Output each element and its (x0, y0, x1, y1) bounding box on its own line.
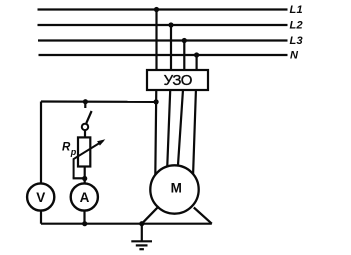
svg-text:N: N (290, 50, 299, 62)
node junction dot at ground tap (139, 221, 144, 226)
resistor rheostat Rp body (78, 137, 90, 166)
node junction dot above ammeter (82, 176, 87, 181)
svg-text:УЗО: УЗО (164, 72, 192, 89)
motor stand right leg (194, 208, 212, 224)
wire from rheostat bottom to ammeter (84, 167, 86, 184)
ammeter A (71, 183, 98, 210)
wire below ammeter (83, 211, 85, 224)
node junction dot below ammeter (82, 221, 87, 226)
wire to ground (141, 224, 143, 241)
node junction dot at switch tap (83, 99, 88, 104)
node junction dot on L2 (168, 22, 173, 27)
bus line L1 (38, 8, 288, 10)
wire tap from L2 down to УЗО and motor (167, 25, 171, 168)
wire left vertical to voltmeter (40, 102, 42, 184)
wire tap from L1 down to УЗО and motor (155, 10, 156, 177)
wire tap from L3 down to УЗО and motor (178, 41, 185, 169)
rheostat wiper arrow (74, 139, 106, 178)
wire stub below switch tap (84, 102, 86, 108)
svg-text:V: V (36, 190, 45, 205)
node junction dot where tap meets phase wire (154, 99, 159, 104)
node junction dot on L1 (154, 7, 159, 12)
node junction dot on N (194, 52, 199, 57)
label Rp (62, 142, 77, 158)
bus line L3 (38, 39, 288, 41)
svg-text:A: A (80, 190, 90, 205)
ground symbol (131, 241, 152, 249)
wire jog from wiper to ammeter wire (73, 177, 85, 179)
voltmeter V (27, 183, 54, 210)
motor stand left leg (142, 206, 159, 223)
RCD device U1 box УЗО (147, 70, 208, 90)
bus line N (39, 54, 288, 56)
wire from switch to rheostat (84, 130, 86, 137)
svg-text:L1: L1 (290, 4, 303, 16)
node junction dot on L3 (182, 38, 187, 43)
wire below voltmeter (40, 211, 42, 224)
svg-text:L2: L2 (290, 20, 303, 32)
wire bottom return (41, 223, 212, 225)
svg-text:R: R (62, 142, 71, 154)
svg-text:M: M (171, 181, 182, 196)
switch S1 contact circle (82, 124, 88, 130)
motor M circle (150, 165, 198, 213)
wire tap from N down to УЗО and motor (193, 55, 197, 180)
bus line L2 (38, 24, 288, 26)
switch S1 blade (86, 111, 91, 123)
svg-text:L3: L3 (290, 35, 303, 47)
svg-text:p: p (70, 147, 77, 157)
wire from phase node to measuring circuit top (41, 100, 156, 103)
